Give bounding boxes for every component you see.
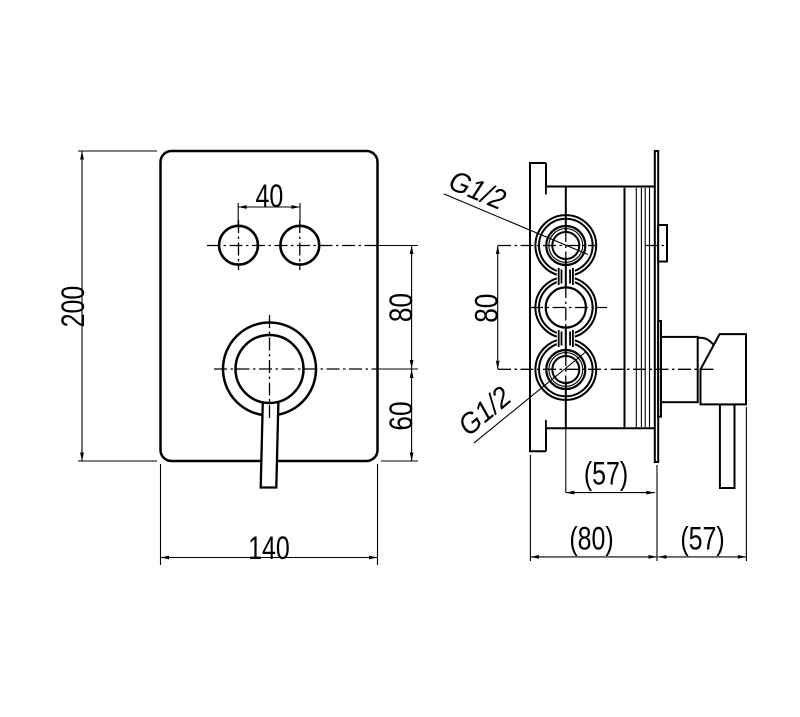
- svg-text:(57): (57): [584, 457, 628, 493]
- svg-text:80: 80: [385, 293, 420, 322]
- svg-text:(57): (57): [680, 522, 724, 558]
- svg-text:40: 40: [256, 179, 284, 215]
- svg-text:80: 80: [470, 294, 505, 323]
- svg-text:G1/2: G1/2: [452, 380, 518, 442]
- svg-text:140: 140: [248, 531, 290, 567]
- svg-text:(80): (80): [569, 522, 613, 558]
- svg-text:200: 200: [56, 286, 92, 328]
- svg-text:60: 60: [385, 401, 420, 430]
